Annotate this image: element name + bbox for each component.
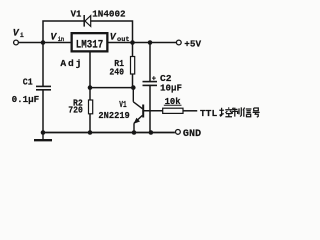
glyph zhi (system) char2 <box>232 107 241 116</box>
svg-text:V1: V1 <box>71 9 82 19</box>
wire LM317 Adj lead <box>89 53 91 88</box>
svg-text:10µF: 10µF <box>160 83 182 94</box>
label LM317 <box>76 40 104 52</box>
node junction dot Vout at C2 <box>148 40 153 45</box>
wire R2 leads <box>89 88 91 133</box>
label R2 <box>73 98 83 108</box>
svg-text:in: in <box>58 36 64 43</box>
wire C2 branch <box>149 43 151 133</box>
wire transistor base to 10k <box>144 110 163 112</box>
label 10k underlined <box>164 96 182 107</box>
svg-text:C1: C1 <box>23 77 34 87</box>
capacitor C1 <box>36 86 51 89</box>
svg-text:+5V: +5V <box>184 39 201 50</box>
label C2 <box>160 74 172 84</box>
transistor Q1 V1 2N2219 <box>133 88 143 133</box>
resistor R1 <box>131 57 135 75</box>
label Vout <box>110 31 130 43</box>
label 0.1uF <box>12 94 40 105</box>
label plus sign C2 <box>152 76 156 84</box>
node junction dot Adj <box>88 85 93 90</box>
node junction dot Vin <box>41 40 46 45</box>
wire ground rail <box>43 132 174 134</box>
svg-text:+: + <box>152 76 156 84</box>
wire LM317 Vout to +5V terminal <box>109 42 177 44</box>
node junction dot rail C2 <box>149 130 154 135</box>
diode V1 1N4002 <box>84 15 91 27</box>
wire C1 branch down <box>42 43 44 133</box>
label GND <box>183 128 201 140</box>
wire Adj node horizontal <box>90 87 133 89</box>
label 240 <box>109 67 124 77</box>
capacitor C2 polarized <box>143 82 158 86</box>
op-amp U1 regulator LM317 box <box>72 33 108 51</box>
svg-text:720: 720 <box>68 106 83 116</box>
ground symbol <box>34 133 52 141</box>
label V1 (transistor) <box>119 100 126 110</box>
svg-text:GND: GND <box>183 128 201 140</box>
wire Vi input to LM317 Vin <box>19 42 71 44</box>
label V1 (diode) <box>71 9 82 19</box>
label 2N2219 <box>98 110 129 121</box>
wire 10k to TTL <box>183 110 197 112</box>
svg-text:LM317: LM317 <box>76 40 104 52</box>
svg-text:1N4002: 1N4002 <box>92 8 126 19</box>
label 720 <box>68 106 83 116</box>
terminal GND open circle <box>176 130 181 135</box>
node junction dot rail emitter <box>132 130 137 135</box>
svg-text:0.1µF: 0.1µF <box>12 94 40 105</box>
label 10uF <box>160 83 182 94</box>
label TTL control signal (TTL Chinese) <box>200 108 218 119</box>
resistor R2 <box>89 100 93 114</box>
terminal +5V open circle <box>176 40 181 45</box>
glyph hao (signal) char4 <box>253 108 260 117</box>
wire R1 leads <box>132 43 134 88</box>
label Vi <box>13 27 24 39</box>
glyph kong (control) char1 <box>219 107 232 116</box>
node junction dot rail C1 <box>41 130 46 135</box>
label Adj <box>60 58 81 69</box>
label +5V <box>184 39 201 50</box>
node junction dot Adj-R1-collector <box>131 85 136 90</box>
svg-text:V1: V1 <box>119 100 126 110</box>
node junction dot rail R2 <box>88 130 93 135</box>
svg-text:i: i <box>20 32 24 39</box>
label 1N4002 <box>92 8 126 19</box>
glyph xin (letter) char3 <box>243 108 251 117</box>
label R1 <box>114 59 124 69</box>
svg-text:TTL: TTL <box>200 108 218 119</box>
svg-text:out: out <box>117 36 130 43</box>
svg-text:2N2219: 2N2219 <box>98 110 129 121</box>
svg-text:Adj: Adj <box>60 58 81 69</box>
terminal Vi open circle <box>14 40 19 45</box>
wire top bypass from Vin node to Vout node <box>43 21 133 43</box>
node junction dot Vout at R1 <box>130 40 135 45</box>
label C1 <box>23 77 34 87</box>
label Vin <box>50 31 64 43</box>
svg-text:240: 240 <box>109 67 124 77</box>
resistor R3 10k horizontal <box>163 108 183 113</box>
